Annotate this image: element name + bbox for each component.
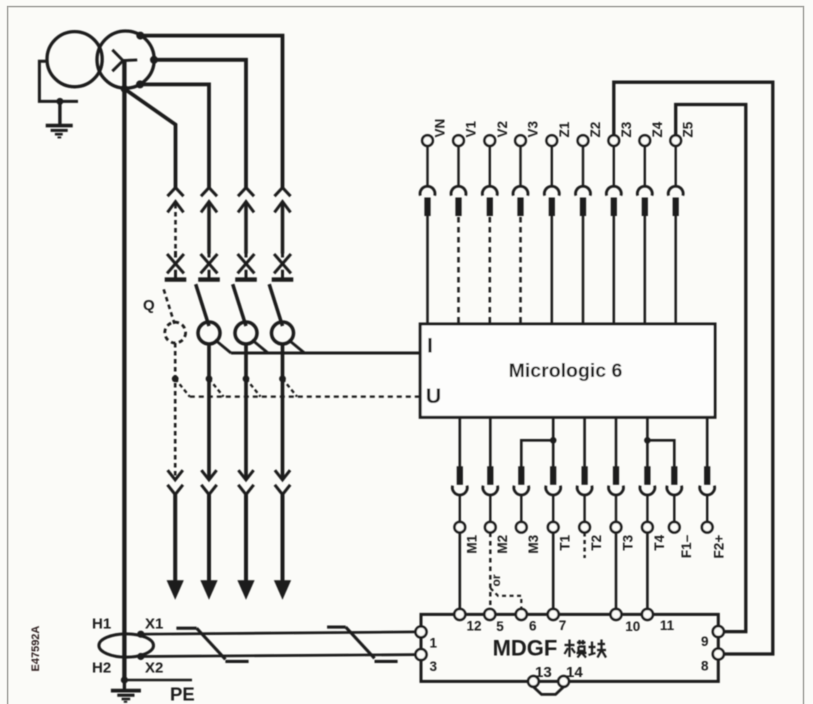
- terminal T4 with disconnectable plug: [640, 417, 667, 550]
- terminal 7 (MDGF top): [548, 609, 567, 633]
- svg-text:Z5: Z5: [681, 121, 696, 137]
- wire: M2 to MDGF terminal 5 (dashed): [489, 533, 491, 610]
- wire: phase B pole conductor below CT: [244, 344, 248, 480]
- svg-text:H1: H1: [92, 616, 111, 633]
- terminal 6 (MDGF top): [516, 609, 537, 634]
- wire: alternative dashed branch to MDGF terminal 6: [490, 588, 521, 609]
- svg-text:H2: H2: [92, 660, 111, 677]
- terminal V1 with disconnectable plug: [451, 120, 478, 323]
- wire: neutral pole conductor below CT: [174, 343, 177, 480]
- wire: T1 to MDGF terminal 7: [552, 533, 555, 610]
- svg-text:Z3: Z3: [619, 121, 634, 137]
- svg-text:9: 9: [701, 634, 709, 649]
- node: voltage tap junction phase A pole: [206, 375, 213, 382]
- svg-text:VN: VN: [433, 119, 448, 138]
- current transformer CT A: [198, 322, 220, 344]
- svg-text:T4: T4: [652, 534, 667, 550]
- svg-text:M1: M1: [464, 534, 479, 553]
- wire: Z3 external loop to MDGF terminal 8: [614, 82, 773, 654]
- terminal V3 with disconnectable plug: [513, 120, 540, 323]
- wire: T4 to MDGF terminal 11: [646, 533, 649, 610]
- wire: neutral feed from transformer to pole 1: [124, 89, 175, 190]
- svg-text:U: U: [426, 384, 442, 408]
- terminal T1 with disconnectable plug: [546, 417, 573, 550]
- terminal 9 (MDGF right): [701, 626, 724, 649]
- svg-text:T1: T1: [558, 534, 573, 550]
- node: voltage tap junction neutral pole: [172, 375, 179, 382]
- svg-text:8: 8: [701, 658, 709, 673]
- terminal 11 (MDGF top): [642, 609, 675, 633]
- terminal V2 with disconnectable plug: [482, 121, 509, 323]
- svg-text:T3: T3: [621, 534, 636, 550]
- svg-text:or: or: [489, 574, 503, 586]
- svg-text:PE: PE: [170, 684, 195, 704]
- wire: voltage tap (dashed) phase C pole to U bus: [283, 379, 298, 397]
- svg-text:I: I: [427, 334, 433, 358]
- node: voltage tap junction phase B pole: [243, 375, 250, 382]
- wire: X1 secondary to MDGF terminal 1: [141, 632, 416, 634]
- breaker Q blade contact, phase B pole: [233, 284, 246, 326]
- breaker Q blade contact, phase C pole: [269, 284, 282, 326]
- drawout contact (bottom) and outgoing feeder arrow, phase A pole: [200, 470, 217, 600]
- breaker Q blade contact, neutral pole: [164, 289, 175, 323]
- terminal M3 with disconnectable plug: [514, 466, 541, 553]
- twisted-pair marker 1: [176, 628, 248, 661]
- svg-text:F1–: F1–: [679, 534, 694, 558]
- svg-text:Micrologic 6: Micrologic 6: [509, 360, 623, 382]
- wire: voltage tap (dashed) phase B pole to U bus: [246, 379, 261, 397]
- svg-text:7: 7: [559, 618, 567, 633]
- terminal M2 with disconnectable plug: [483, 417, 510, 553]
- svg-text:Z2: Z2: [588, 122, 603, 138]
- terminal VN with disconnectable plug: [420, 119, 447, 323]
- terminal 13 (MDGF bottom): [528, 664, 552, 687]
- terminal 14 (MDGF bottom): [558, 664, 583, 687]
- svg-text:Q: Q: [143, 297, 155, 314]
- wire: phase C pole conductor below CT: [281, 344, 285, 480]
- drawout contact (bottom) and outgoing feeder arrow, phase C pole: [274, 470, 291, 600]
- wire: voltage tap (dashed) neutral pole to U bus: [175, 379, 190, 397]
- svg-text:13: 13: [535, 664, 552, 681]
- svg-text:V1: V1: [464, 120, 479, 137]
- node: junction on T1 wire branching to M3: [550, 437, 557, 444]
- svg-text:M3: M3: [526, 534, 541, 553]
- svg-text:T2: T2: [589, 535, 604, 551]
- transformer T (MV/LV source, wye secondary): [47, 31, 154, 88]
- node: PE junction: [121, 676, 128, 683]
- svg-text:V2: V2: [495, 121, 510, 138]
- svg-text:V3: V3: [526, 120, 541, 137]
- label: Chinese characters MO KUAI (module): [565, 640, 607, 658]
- svg-text:Z4: Z4: [650, 121, 665, 137]
- drawout contact (bottom) and outgoing feeder arrow, neutral pole: [167, 470, 184, 600]
- wire: jumper between terminals 13 and 14: [533, 687, 563, 695]
- svg-text:6: 6: [529, 619, 537, 634]
- terminal 5 (MDGF top): [484, 609, 504, 634]
- ground (transformer neutral earthing): [39, 61, 78, 137]
- wire: phase A pole conductor below CT: [207, 344, 211, 480]
- node: junction on T4 wire branching to F1-: [644, 437, 651, 444]
- svg-text:11: 11: [660, 618, 675, 633]
- current transformer CT B: [235, 322, 257, 344]
- svg-text:MDGF: MDGF: [493, 635, 558, 660]
- current sensor neutral (dashed, internal CT pole 1): [165, 322, 186, 343]
- breaker Q drawout contact (top), phase C pole: [272, 188, 294, 280]
- svg-text:M2: M2: [495, 535, 510, 554]
- node: voltage tap junction phase C pole: [279, 375, 286, 382]
- node X2: [137, 653, 144, 660]
- terminal Z4 with disconnectable plug: [637, 121, 664, 323]
- terminal 8 (MDGF right): [701, 649, 724, 674]
- drawout contact (bottom) and outgoing feeder arrow, phase B pole: [237, 470, 254, 600]
- ground (PE earth electrode): [111, 680, 141, 702]
- breaker Q drawout contact (top), neutral pole: [165, 188, 187, 280]
- module U2: MDGF ground-fault module: [421, 614, 718, 681]
- terminal 12 (MDGF top): [454, 609, 481, 634]
- wire: phase C feed from transformer to pole 4: [140, 36, 282, 190]
- wire: T3 to MDGF terminal 10: [615, 533, 618, 610]
- wire: phase B feed from transformer to pole 3: [154, 60, 246, 190]
- svg-text:E47592A: E47592A: [30, 626, 42, 672]
- terminal F2+ with disconnectable plug: [700, 417, 727, 558]
- wire: neutral conductor down to external CT and earth: [122, 61, 126, 680]
- op-amp/relay unit U1: Micrologic 6 trip unit: [420, 324, 715, 417]
- terminal 10 (MDGF top): [611, 609, 641, 634]
- current transformer: external neutral CT (H1/H2, X1/X2): [99, 634, 154, 657]
- svg-text:Z1: Z1: [557, 121, 572, 137]
- terminal 3 (MDGF left): [416, 649, 438, 674]
- wire: phase A feed from transformer to pole 2: [140, 84, 209, 189]
- terminal Z5 with disconnectable plug: [668, 121, 695, 323]
- twisted-pair marker 2: [327, 627, 398, 661]
- wire: PE conductor: [124, 679, 192, 682]
- breaker Q drawout contact (top), phase B pole: [235, 188, 257, 280]
- node X1: [137, 631, 144, 638]
- svg-text:12: 12: [467, 619, 482, 634]
- svg-text:X1: X1: [145, 616, 163, 633]
- wire: voltage tap (dashed) phase A pole to U bus: [209, 379, 224, 397]
- svg-text:10: 10: [625, 619, 640, 634]
- terminal F1– with disconnectable plug: [667, 466, 694, 558]
- breaker Q drawout contact (top), phase A pole: [198, 188, 220, 280]
- breaker Q blade contact, phase A pole: [196, 284, 209, 326]
- current transformer CT C: [272, 322, 294, 344]
- svg-text:F2+: F2+: [712, 535, 727, 559]
- terminal T3 with disconnectable plug: [609, 417, 636, 550]
- svg-text:3: 3: [430, 659, 438, 674]
- wire: X2 secondary to MDGF terminal 3: [141, 655, 416, 657]
- wire: branch from T1 junction to M3 plug: [521, 440, 553, 466]
- wire: T2 dashed stub: [583, 533, 585, 559]
- terminal Z3 with disconnectable plug: [606, 121, 633, 323]
- terminal 1 (MDGF left): [416, 626, 438, 650]
- terminal T2 with disconnectable plug: [577, 417, 604, 550]
- node: transformer output junction dots: [121, 32, 158, 93]
- svg-text:X2: X2: [145, 660, 163, 677]
- terminal M1 with disconnectable plug: [452, 417, 479, 553]
- svg-text:5: 5: [496, 619, 504, 634]
- wire: CT secondaries to Micrologic I input: [215, 340, 420, 353]
- wire: dashed voltage bus to Micrologic U input: [190, 395, 420, 397]
- terminal Z2 with disconnectable plug: [576, 122, 603, 323]
- svg-text:14: 14: [566, 664, 583, 681]
- svg-text:1: 1: [430, 635, 438, 650]
- wire: branch from T4 junction to F1- plug: [647, 440, 674, 466]
- wire: Z5 external loop to MDGF terminal 9: [676, 105, 746, 632]
- wire: M1 to MDGF terminal 12: [458, 533, 461, 610]
- terminal Z1 with disconnectable plug: [544, 121, 571, 323]
